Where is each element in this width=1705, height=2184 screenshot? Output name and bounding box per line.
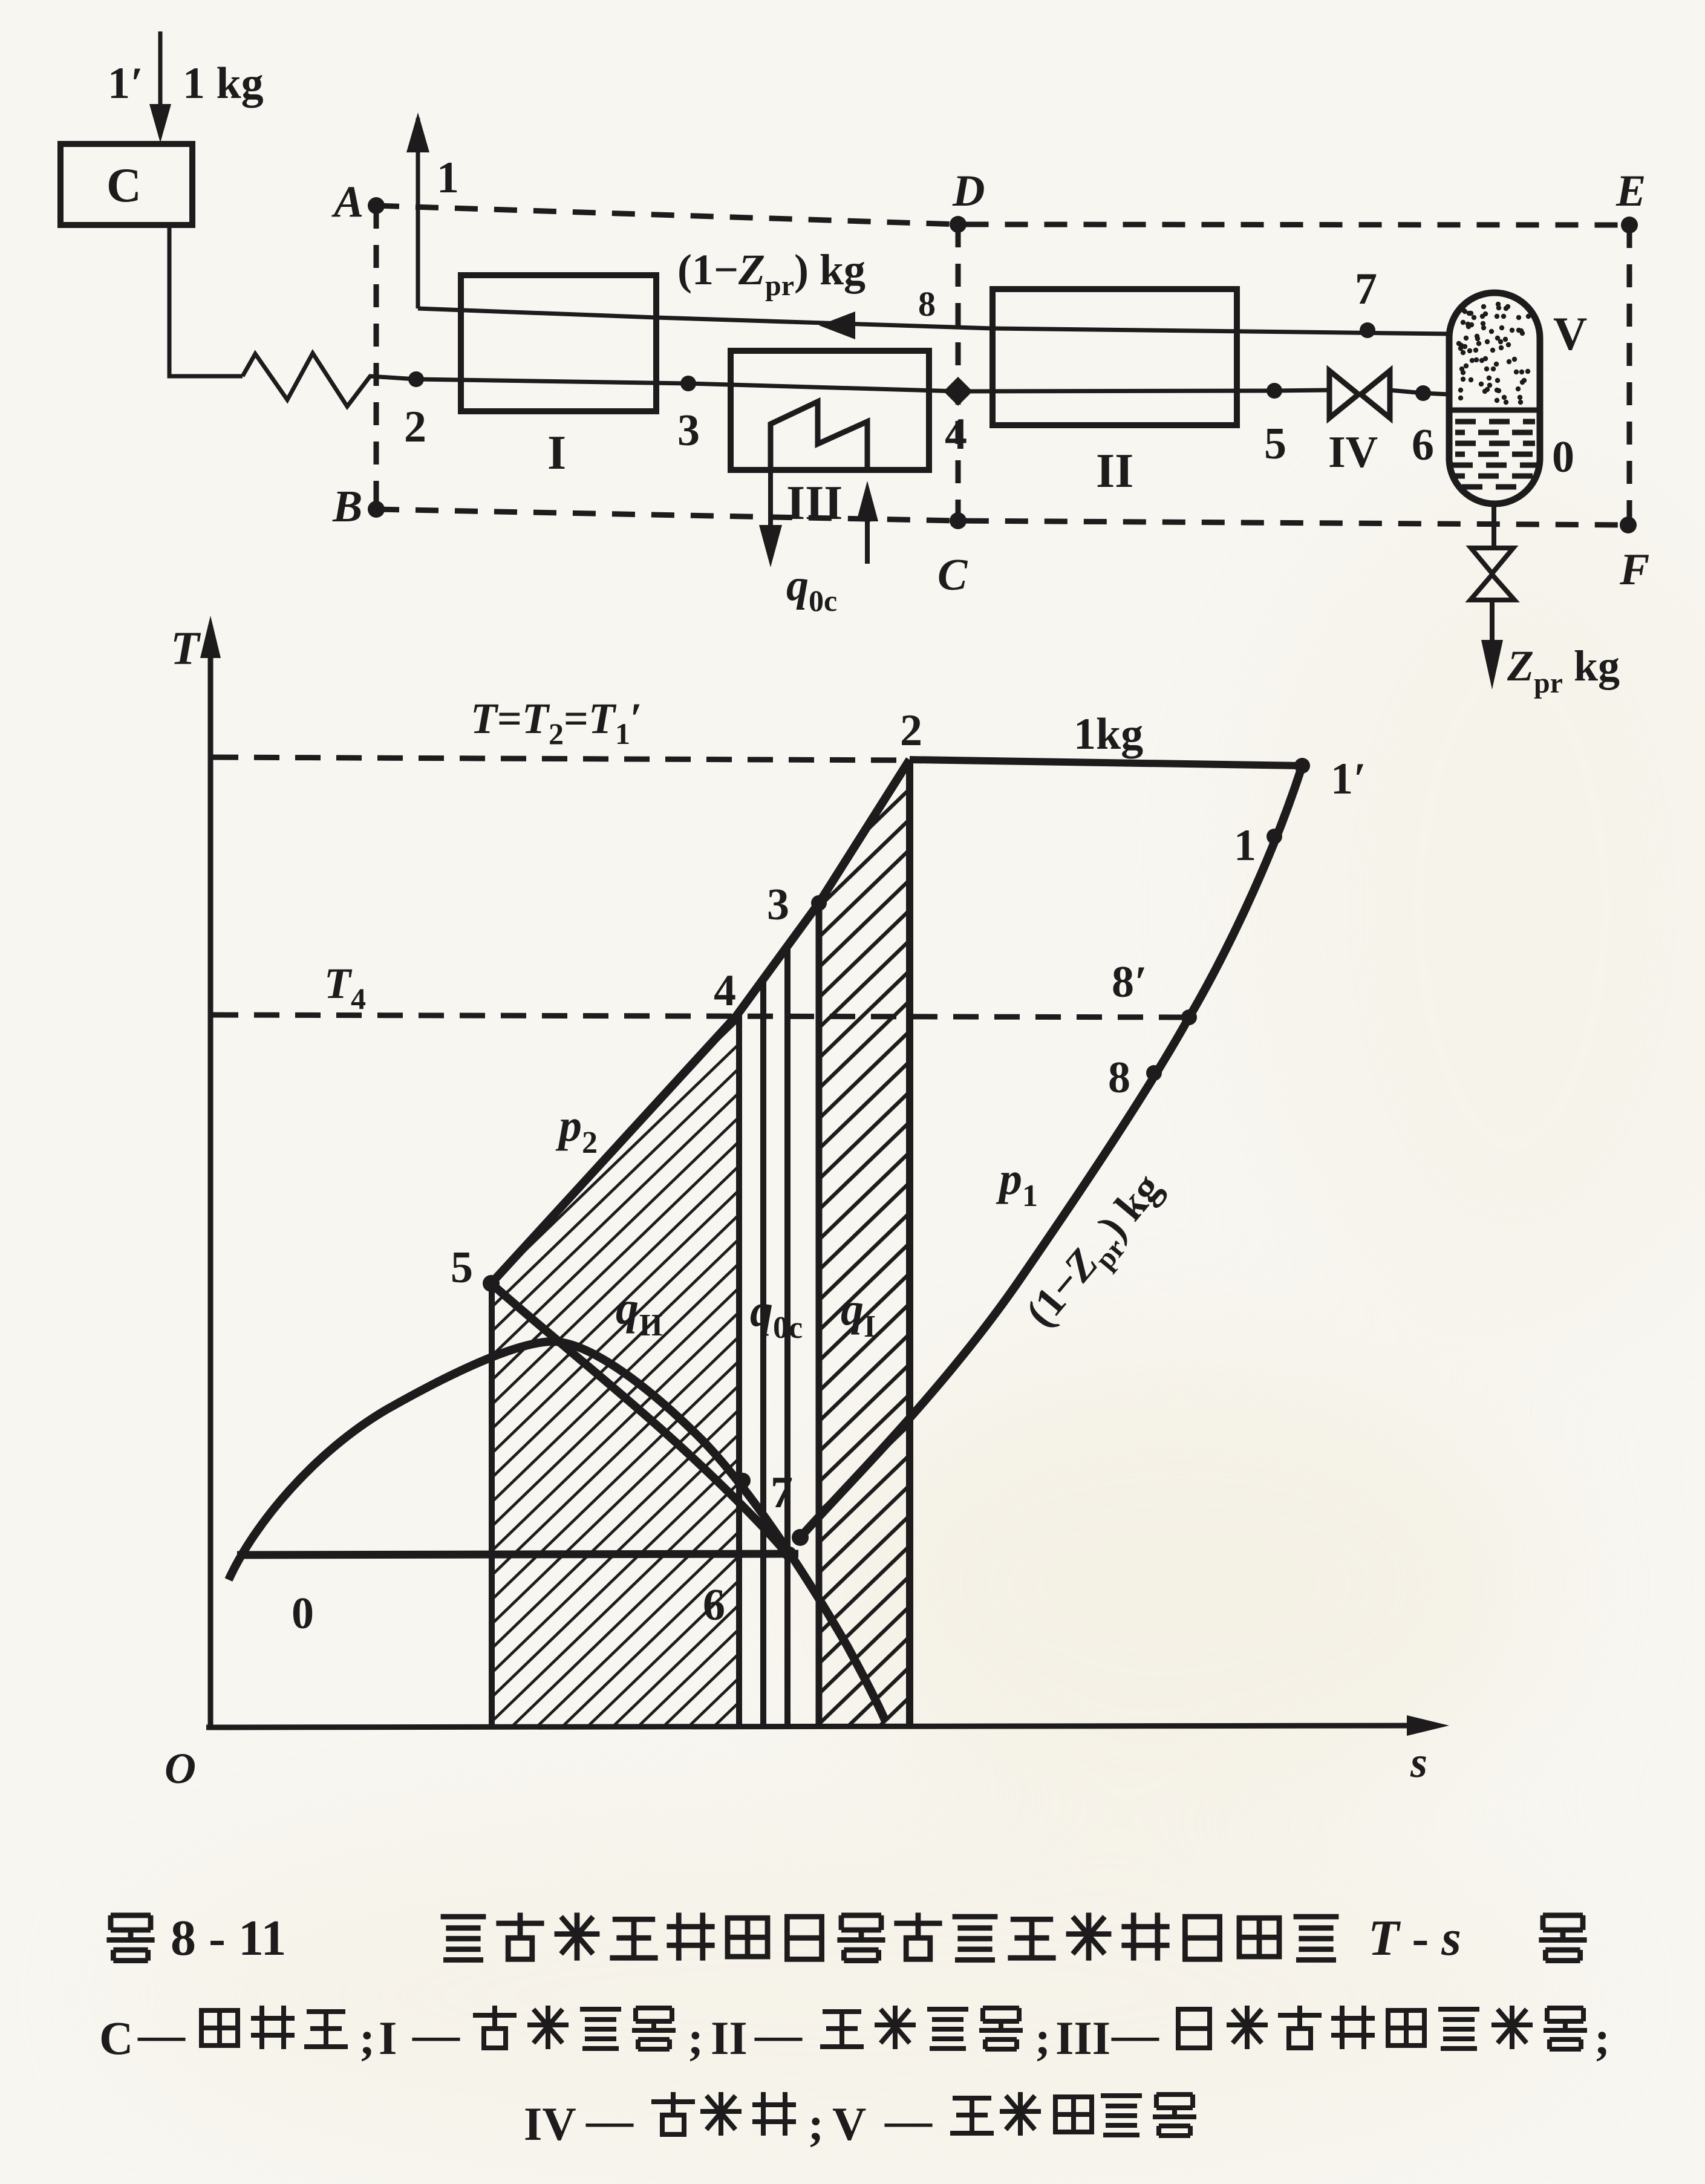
- svg-text:8′: 8′: [1112, 957, 1147, 1007]
- svg-text:1: 1: [437, 153, 459, 203]
- svg-text:4: 4: [945, 409, 967, 459]
- svg-text:3: 3: [677, 406, 700, 455]
- svg-text:V: V: [1553, 307, 1587, 360]
- svg-text:1 kg: 1 kg: [183, 59, 264, 108]
- svg-text:—: —: [884, 2094, 933, 2147]
- svg-text:T - s: T - s: [1368, 1910, 1461, 1966]
- svg-text:;: ;: [688, 2012, 703, 2064]
- svg-text:;: ;: [1594, 2012, 1610, 2064]
- svg-text:;: ;: [1035, 2012, 1051, 2064]
- svg-text:T: T: [171, 622, 201, 674]
- svg-text:C: C: [99, 2012, 133, 2064]
- svg-text:I: I: [547, 426, 566, 480]
- svg-text:IV: IV: [1328, 428, 1378, 477]
- svg-text:—: —: [754, 2008, 803, 2061]
- svg-text:1: 1: [1234, 821, 1256, 870]
- svg-text:III: III: [1055, 2012, 1110, 2064]
- svg-text:E: E: [1615, 166, 1646, 216]
- svg-text:O: O: [165, 1744, 196, 1793]
- svg-text:6: 6: [1412, 420, 1434, 470]
- svg-text:II: II: [711, 2012, 748, 2064]
- svg-text:II: II: [1096, 445, 1133, 498]
- svg-text:8 - 11: 8 - 11: [171, 1910, 286, 1966]
- svg-text:1′: 1′: [108, 59, 143, 108]
- svg-text:4: 4: [714, 966, 736, 1015]
- svg-text:—: —: [1111, 2008, 1159, 2061]
- svg-text:C: C: [937, 550, 968, 600]
- svg-text:—: —: [585, 2094, 634, 2147]
- svg-text:—: —: [412, 2008, 460, 2061]
- svg-text:V: V: [832, 2098, 866, 2150]
- svg-text:I: I: [379, 2012, 397, 2064]
- svg-text:0: 0: [1552, 432, 1574, 482]
- svg-text:8: 8: [918, 284, 936, 324]
- svg-text:0: 0: [292, 1589, 314, 1638]
- svg-text:7: 7: [1355, 264, 1377, 314]
- svg-text:s: s: [1410, 1738, 1427, 1787]
- svg-text:C: C: [106, 159, 142, 212]
- svg-text:B: B: [332, 482, 362, 532]
- svg-text:F: F: [1619, 545, 1649, 595]
- svg-text:2: 2: [900, 706, 922, 755]
- svg-text:7: 7: [771, 1468, 793, 1517]
- svg-text:D: D: [952, 166, 985, 216]
- svg-text:;: ;: [359, 2012, 375, 2064]
- svg-text:1kg: 1kg: [1074, 709, 1143, 759]
- svg-text:8: 8: [1108, 1053, 1130, 1103]
- svg-text:A: A: [331, 177, 363, 227]
- svg-text:1′: 1′: [1331, 754, 1366, 804]
- svg-text:5: 5: [451, 1243, 473, 1292]
- svg-text:III: III: [786, 477, 843, 530]
- svg-text:—: —: [137, 2008, 186, 2061]
- svg-text:;: ;: [808, 2098, 824, 2150]
- svg-text:IV: IV: [524, 2098, 576, 2150]
- svg-text:2: 2: [404, 402, 426, 452]
- svg-text:6: 6: [703, 1580, 725, 1630]
- svg-text:5: 5: [1264, 419, 1286, 469]
- svg-text:3: 3: [767, 880, 789, 930]
